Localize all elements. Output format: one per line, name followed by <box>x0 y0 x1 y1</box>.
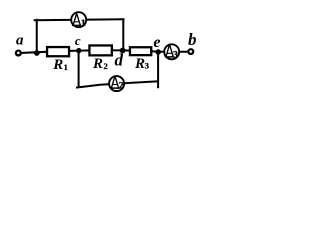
svg-text:b: b <box>188 30 197 49</box>
svg-text:a: a <box>16 33 24 49</box>
svg-text:e: e <box>153 34 160 51</box>
svg-text:d: d <box>115 51 124 70</box>
svg-text:1: 1 <box>64 62 68 72</box>
svg-text:2: 2 <box>104 61 108 71</box>
svg-text:R: R <box>52 57 63 73</box>
svg-text:3: 3 <box>173 50 178 60</box>
svg-text:1: 1 <box>81 19 86 29</box>
svg-text:c: c <box>75 33 81 48</box>
svg-text:R: R <box>92 56 103 72</box>
svg-text:3: 3 <box>145 61 149 71</box>
svg-text:R: R <box>134 56 145 72</box>
svg-text:2: 2 <box>119 82 124 92</box>
